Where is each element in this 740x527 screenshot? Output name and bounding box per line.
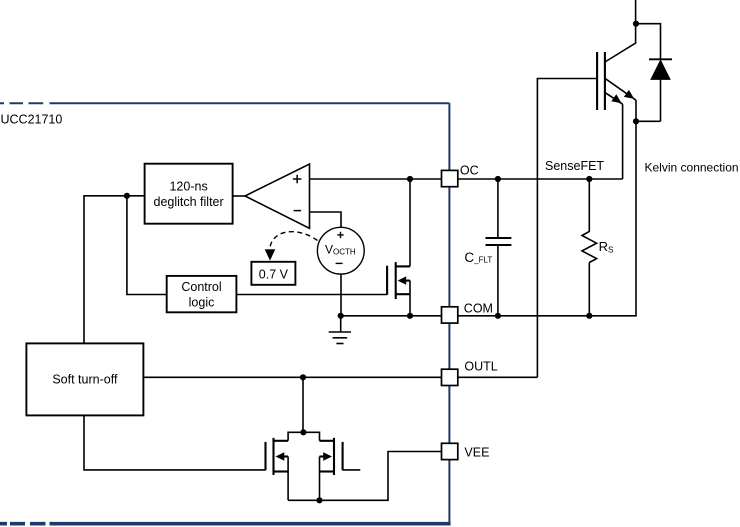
ground symbol: [329, 316, 351, 344]
node dot VOCTH/ground on COM rail: [338, 313, 344, 319]
wire: soft turn-off bottom to left FET gate: [84, 415, 266, 470]
svg-text:COM: COM: [464, 302, 493, 316]
voltage source VOCTH: [317, 227, 364, 274]
svg-text:UCC21710: UCC21710: [1, 113, 63, 127]
wire: internal MOSFET source down to COM rail: [409, 281, 411, 316]
wire: sense emitter vertical to OC row: [622, 104, 624, 179]
capacitor C_FLT: [486, 179, 512, 316]
wire: diode bottom to emitter node: [636, 120, 661, 122]
chip boundary top edge solid: [50, 102, 450, 104]
node dot collector: [633, 21, 639, 27]
wire: left FET source/body down to rail: [287, 457, 289, 501]
svg-text:Kelvin connection: Kelvin connection: [645, 161, 739, 175]
wire: deglitch output left to junction and vertical to soft turn-off: [84, 196, 145, 344]
resistor RS: [582, 179, 597, 316]
Soft turn-off box: [26, 343, 143, 415]
wire: COM pin to Kelvin corner (external COM row): [458, 315, 637, 317]
wire: COM rail inside chip: [341, 315, 441, 317]
120-ns deglitch filter box: [145, 164, 233, 224]
wire: main emitter vertical: [635, 100, 637, 121]
node dots RS: [586, 176, 592, 182]
chip boundary UCC21710 top edge (dashed left part): [0, 103, 449, 523]
wire: comparator - input to VOCTH top: [310, 212, 342, 227]
node dot on OUTL row: [300, 374, 306, 380]
wire: VOCTH bottom to COM rail: [340, 274, 342, 316]
node dots on OC row: [407, 176, 413, 182]
chip boundary right edge: [448, 103, 450, 523]
wire: right FET source/body down to rail: [319, 457, 321, 501]
IGBT collector diagonal and top wire: [605, 0, 636, 62]
transistor SenseFET IGBT Q1: [597, 52, 605, 110]
transistor right pull-down MOSFET: [320, 438, 343, 475]
wire: collector node to diode top: [636, 24, 661, 60]
node dot emitter/Kelvin: [633, 118, 639, 124]
main emitter arrow: [624, 90, 634, 99]
sense emitter arrow: [611, 94, 621, 103]
svg-text:120-ns: 120-ns: [169, 180, 207, 194]
dashed arrow from VOCTH to 0.7 V box: [265, 232, 318, 261]
transistor pull-down MOSFET pair bridge: [288, 432, 319, 441]
internal MOSFET body arrow: [398, 276, 407, 284]
chip boundary bottom edge: [0, 522, 451, 526]
svg-text:Control: Control: [181, 280, 221, 294]
svg-text:Soft turn-off: Soft turn-off: [52, 373, 118, 387]
wire: OUTL pin to gate riser: [458, 376, 538, 378]
wire: comparator + input to OC pin (OC row inside chip): [310, 178, 442, 180]
pin COM: [442, 302, 493, 324]
transistor internal blanking MOSFET: [387, 262, 410, 299]
wire: Kelvin connection vertical: [635, 121, 637, 315]
wire: internal MOSFET drain up to OC row: [409, 179, 411, 266]
svg-text:logic: logic: [189, 296, 215, 310]
node dot bridge: [300, 429, 306, 435]
op-amp comparator (points left): [245, 164, 310, 228]
diode D1 (freewheeling): [649, 59, 672, 121]
wire: OC pin to sense-emitter corner (external OC row): [458, 178, 623, 180]
wire: control logic output to internal MOSFET gate: [236, 294, 387, 296]
node dot on rail: [316, 497, 322, 503]
wire: soft turn-off output to OUTL pin: [143, 376, 441, 378]
IGBT main emitter diagonal: [605, 78, 636, 100]
transistor left pull-down MOSFET: [266, 438, 289, 475]
svg-text:OC: OC: [460, 163, 479, 177]
wire: comparator output to deglitch filter: [233, 195, 245, 197]
pin OUTL: [442, 360, 498, 386]
node dot internal FET source on COM rail: [407, 313, 413, 319]
pin VEE: [442, 443, 490, 459]
pin OC: [442, 163, 479, 186]
svg-text:SenseFET: SenseFET: [545, 159, 604, 173]
svg-text:VEE: VEE: [464, 446, 489, 460]
svg-text:deglitch filter: deglitch filter: [154, 195, 224, 209]
node dots C_FLT: [495, 176, 501, 182]
IGBT sense emitter diagonal: [605, 92, 623, 104]
wire: right FET gate stub: [343, 469, 361, 471]
left FET body arrow: [276, 452, 285, 461]
wire: branch down to control logic: [127, 196, 167, 295]
svg-text:OUTL: OUTL: [464, 360, 497, 374]
wire: OUTL row branch down to FET pair bridge: [302, 377, 304, 432]
svg-text:0.7 V: 0.7 V: [259, 267, 289, 281]
right FET body arrow: [323, 452, 332, 461]
0.7 V reference box: [251, 262, 295, 285]
wire: gate riser up and over to IGBT gate: [537, 79, 597, 378]
node junction on deglitch wire: [124, 193, 130, 199]
Control logic box: [167, 276, 237, 312]
wire: FET pair source rail to VEE pin: [288, 452, 441, 501]
